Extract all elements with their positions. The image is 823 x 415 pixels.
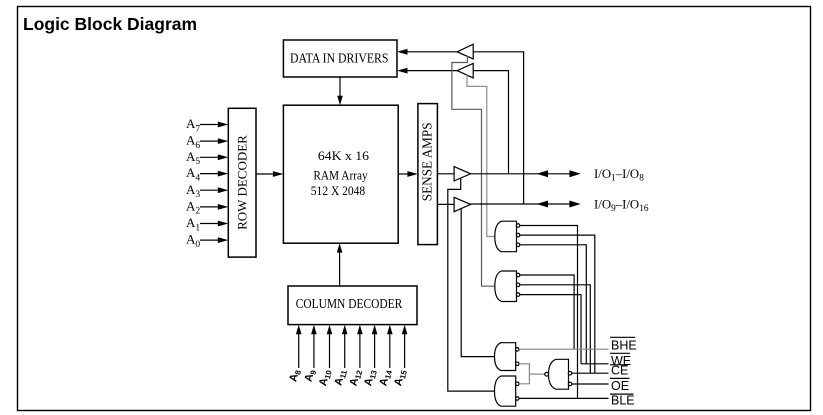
wire A10 input bbox=[327, 325, 333, 368]
wire G3/G4 inputs from G5 output bbox=[519, 364, 530, 384]
label BLE bbox=[610, 394, 635, 408]
wire G2 input pin1 to BHE vertical bbox=[520, 275, 574, 349]
wire G1 input pin1 to BLE vertical bbox=[520, 226, 578, 399]
wire A5 input bbox=[200, 154, 228, 160]
svg-text:BHE: BHE bbox=[611, 339, 637, 353]
wire U1 enable from gate G2 bbox=[452, 56, 496, 287]
wire ROW DECODER to RAM bbox=[256, 171, 283, 177]
svg-text:SENSE AMPS: SENSE AMPS bbox=[419, 122, 434, 201]
gate G5 (2-input nand of CE OE) bbox=[545, 359, 572, 389]
svg-text:OE: OE bbox=[611, 379, 629, 393]
wire DATA IN DRIVERS to RAM bbox=[337, 77, 343, 105]
wire U2 input from IO1-8 bbox=[473, 71, 508, 174]
wire SENSE AMPS to U3 bbox=[437, 173, 454, 175]
svg-text:RAM Array: RAM Array bbox=[313, 169, 368, 183]
label CE bbox=[610, 363, 628, 377]
wire G2 input pin3 to WE vertical bbox=[520, 295, 581, 364]
gate G2 (3-input, enable of U1) bbox=[495, 271, 520, 302]
wire A1 input bbox=[200, 221, 228, 227]
wire U4 enable from gate G3 bbox=[461, 208, 495, 357]
svg-text:ROW DECODER: ROW DECODER bbox=[234, 135, 249, 230]
wire G2 input pin2 to CE vertical bbox=[520, 285, 591, 373]
svg-text:BLE: BLE bbox=[611, 394, 635, 408]
wire SENSE AMPS to U4 bbox=[437, 203, 454, 205]
buffer U4 output lower bbox=[454, 197, 471, 211]
wire A3 input bbox=[200, 187, 228, 193]
wire A12 input bbox=[357, 325, 363, 368]
buffer U2 data-in lower bbox=[457, 63, 473, 78]
label WE bbox=[610, 353, 631, 368]
wire U2 enable from gate G1 bbox=[467, 74, 496, 236]
buffer U3 output upper bbox=[454, 167, 471, 181]
svg-text:512 X 2048: 512 X 2048 bbox=[311, 184, 365, 198]
gate G4 (2-input, enable of U3) bbox=[495, 376, 520, 406]
label OE bbox=[610, 378, 630, 393]
gate G3 (2-input, enable of U4) bbox=[495, 343, 520, 371]
gate G1 (3-input, enable of U2) bbox=[495, 221, 520, 252]
wire BLE row bbox=[519, 397, 609, 399]
svg-text:64K x 16: 64K x 16 bbox=[318, 149, 370, 163]
wire U1 to DATA IN DRIVERS bbox=[397, 49, 457, 55]
wire A6 input bbox=[200, 138, 228, 144]
wire RAM to SENSE AMPS bbox=[398, 171, 418, 177]
block RAM Array 64K x 16 bbox=[283, 105, 398, 243]
wire A13 input bbox=[372, 325, 378, 368]
wire A7 input bbox=[200, 122, 228, 128]
buffer U1 data-in upper bbox=[457, 44, 473, 59]
block DATA IN DRIVERS bbox=[283, 40, 397, 77]
wire IO9-16 bus bbox=[471, 201, 581, 208]
label BHE bbox=[610, 337, 637, 352]
block ROW DECODER bbox=[228, 108, 256, 257]
wire A14 input bbox=[387, 325, 393, 368]
wire U3 enable from gate G4 bbox=[448, 178, 496, 391]
wire A11 input bbox=[342, 325, 348, 368]
block SENSE AMPS bbox=[418, 104, 438, 245]
wire A9 input bbox=[311, 325, 317, 368]
wire WE row bbox=[581, 363, 609, 365]
wire A2 input bbox=[200, 204, 228, 210]
wire A15 input bbox=[402, 325, 408, 368]
wire A4 input bbox=[200, 171, 228, 177]
wire IO1-8 bus bbox=[471, 170, 581, 177]
wire OE row bbox=[572, 383, 609, 385]
wire A0 input bbox=[200, 237, 228, 243]
wire BHE row bbox=[519, 348, 609, 350]
wire U2 to DATA IN DRIVERS bbox=[397, 68, 457, 74]
wire U1 input from IO9-16 bbox=[473, 52, 523, 204]
wire CE row bbox=[572, 372, 609, 374]
wire G1 input pin3 to WE vertical bbox=[520, 245, 587, 364]
wire A8 input bbox=[296, 325, 302, 368]
wire COLUMN DECODER to RAM bbox=[337, 243, 343, 286]
svg-text:DATA IN DRIVERS: DATA IN DRIVERS bbox=[290, 51, 389, 66]
wire G1 input pin2 to CE vertical bbox=[520, 235, 595, 373]
block COLUMN DECODER bbox=[288, 286, 417, 325]
svg-text:Logic Block Diagram: Logic Block Diagram bbox=[23, 14, 197, 34]
svg-text:CE: CE bbox=[611, 363, 628, 377]
wire G5 output bbox=[529, 373, 545, 375]
svg-text:COLUMN DECODER: COLUMN DECODER bbox=[296, 296, 403, 311]
